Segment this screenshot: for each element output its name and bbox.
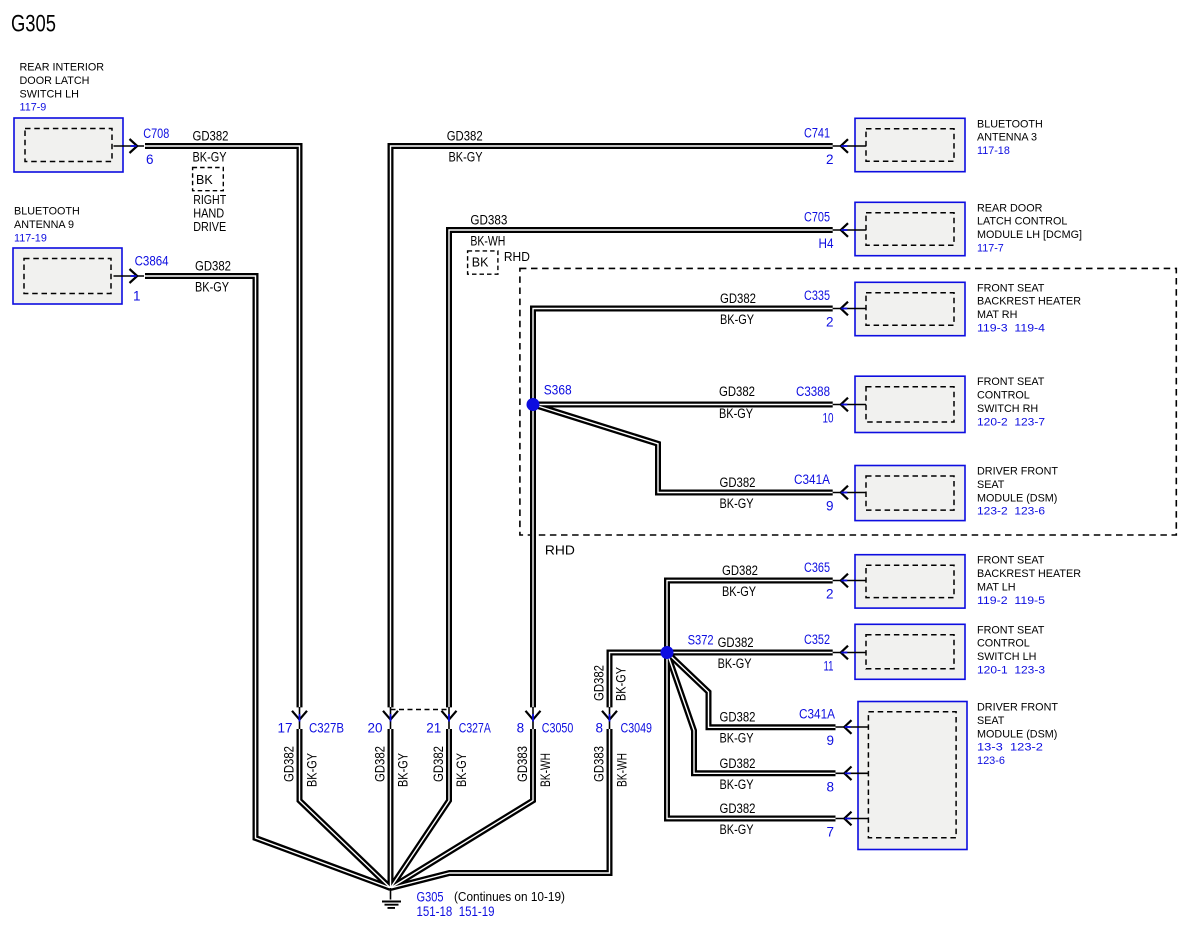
svg-text:6: 6 [146, 152, 154, 167]
svg-text:11: 11 [824, 659, 834, 674]
svg-text:BLUETOOTH: BLUETOOTH [14, 206, 80, 218]
svg-text:C327B: C327B [309, 721, 344, 736]
svg-text:SWITCH LH: SWITCH LH [977, 651, 1036, 663]
svg-text:REAR INTERIOR: REAR INTERIOR [20, 62, 105, 74]
svg-text:117-19: 117-19 [14, 232, 47, 244]
svg-text:GD382: GD382 [282, 746, 297, 782]
svg-text:DRIVE: DRIVE [193, 220, 226, 234]
svg-text:117-9: 117-9 [20, 102, 47, 114]
svg-text:9: 9 [826, 499, 834, 514]
svg-text:GD382: GD382 [592, 665, 607, 701]
svg-text:8: 8 [517, 721, 525, 736]
svg-text:BACKREST HEATER: BACKREST HEATER [977, 568, 1081, 580]
svg-text:RIGHT: RIGHT [193, 193, 226, 207]
svg-text:123-2 123-6: 123-2 123-6 [977, 506, 1045, 518]
svg-text:CONTROL: CONTROL [977, 390, 1030, 402]
svg-text:120-1 123-3: 120-1 123-3 [977, 665, 1045, 677]
svg-text:BK-GY: BK-GY [454, 753, 469, 787]
svg-text:8: 8 [826, 779, 834, 794]
svg-text:C705: C705 [804, 210, 830, 225]
svg-text:C341A: C341A [799, 707, 835, 722]
svg-text:G305: G305 [11, 11, 56, 38]
svg-text:GD382: GD382 [722, 563, 758, 578]
svg-text:BK-GY: BK-GY [720, 731, 754, 746]
svg-text:MAT LH: MAT LH [977, 582, 1016, 594]
svg-text:13-3 123-2: 13-3 123-2 [977, 742, 1043, 754]
svg-text:21: 21 [426, 721, 441, 736]
svg-text:RHD: RHD [545, 543, 575, 558]
svg-text:BK-WH: BK-WH [470, 234, 505, 249]
svg-text:S368: S368 [544, 383, 572, 398]
svg-text:C365: C365 [804, 560, 830, 575]
svg-text:120-2 123-7: 120-2 123-7 [977, 416, 1045, 428]
svg-text:FRONT SEAT: FRONT SEAT [977, 624, 1045, 636]
svg-text:HAND: HAND [193, 206, 224, 220]
svg-text:GD382: GD382 [719, 384, 755, 399]
svg-text:H4: H4 [819, 236, 834, 251]
svg-text:FRONT SEAT: FRONT SEAT [977, 282, 1045, 294]
svg-text:DRIVER FRONT: DRIVER FRONT [977, 702, 1058, 714]
svg-text:BK-WH: BK-WH [615, 753, 630, 787]
svg-text:C327A: C327A [459, 721, 491, 736]
svg-text:GD383: GD383 [470, 213, 507, 228]
svg-text:BK-GY: BK-GY [396, 753, 411, 787]
svg-text:SWITCH LH: SWITCH LH [20, 88, 79, 100]
svg-text:RHD: RHD [504, 250, 530, 264]
svg-text:17: 17 [278, 721, 293, 736]
svg-text:9: 9 [826, 733, 834, 748]
svg-text:MODULE (DSM): MODULE (DSM) [977, 492, 1057, 504]
svg-text:BK-GY: BK-GY [193, 150, 227, 165]
svg-text:G305: G305 [417, 890, 444, 905]
svg-text:7: 7 [826, 825, 834, 840]
svg-text:S372: S372 [688, 633, 714, 648]
svg-text:BK-GY: BK-GY [449, 150, 483, 165]
svg-text:GD382: GD382 [720, 801, 756, 816]
svg-text:GD382: GD382 [431, 746, 446, 782]
svg-text:REAR DOOR: REAR DOOR [977, 202, 1043, 214]
svg-text:C741: C741 [804, 126, 830, 141]
svg-text:119-3 119-4: 119-3 119-4 [977, 323, 1045, 335]
svg-text:GD382: GD382 [193, 129, 229, 144]
svg-text:GD382: GD382 [720, 291, 756, 306]
svg-text:2: 2 [826, 587, 834, 602]
svg-text:BK-GY: BK-GY [614, 667, 629, 701]
svg-text:SEAT: SEAT [977, 715, 1005, 727]
svg-text:GD382: GD382 [720, 475, 756, 490]
svg-text:(Continues on 10-19): (Continues on 10-19) [454, 889, 565, 904]
svg-text:1: 1 [133, 289, 141, 304]
svg-text:C3049: C3049 [621, 721, 653, 736]
svg-text:119-2 119-5: 119-2 119-5 [977, 595, 1045, 607]
svg-text:151-18 151-19: 151-18 151-19 [417, 904, 495, 919]
svg-text:C3050: C3050 [542, 721, 574, 736]
svg-text:C708: C708 [143, 126, 169, 141]
svg-text:MAT RH: MAT RH [977, 309, 1017, 321]
svg-text:GD382: GD382 [373, 746, 388, 782]
svg-text:LATCH CONTROL: LATCH CONTROL [977, 216, 1067, 228]
svg-text:BK-WH: BK-WH [538, 753, 553, 787]
svg-text:BACKREST HEATER: BACKREST HEATER [977, 296, 1081, 308]
svg-text:GD382: GD382 [720, 710, 756, 725]
svg-text:CONTROL: CONTROL [977, 638, 1030, 650]
svg-text:BK-GY: BK-GY [720, 822, 754, 837]
svg-text:BLUETOOTH: BLUETOOTH [977, 118, 1043, 130]
svg-text:117-7: 117-7 [977, 243, 1004, 255]
svg-text:GD382: GD382 [720, 756, 756, 771]
svg-text:GD382: GD382 [718, 635, 754, 650]
svg-text:BK-GY: BK-GY [718, 656, 752, 671]
svg-text:123-6: 123-6 [977, 755, 1005, 767]
svg-text:FRONT SEAT: FRONT SEAT [977, 376, 1045, 388]
svg-text:BK-GY: BK-GY [305, 753, 320, 787]
svg-text:GD383: GD383 [592, 746, 607, 782]
svg-text:2: 2 [826, 152, 834, 167]
svg-text:BK: BK [472, 256, 489, 270]
svg-text:BK-GY: BK-GY [720, 312, 754, 327]
svg-text:20: 20 [368, 721, 383, 736]
svg-text:GD383: GD383 [515, 746, 530, 782]
svg-text:GD382: GD382 [447, 129, 483, 144]
svg-text:8: 8 [595, 721, 603, 736]
svg-text:C3388: C3388 [796, 384, 830, 399]
svg-text:BK-GY: BK-GY [720, 777, 754, 792]
svg-text:SEAT: SEAT [977, 479, 1005, 491]
svg-text:MODULE (DSM): MODULE (DSM) [977, 728, 1057, 740]
svg-text:BK-GY: BK-GY [720, 496, 754, 511]
svg-text:2: 2 [826, 315, 834, 330]
svg-text:FRONT SEAT: FRONT SEAT [977, 555, 1045, 567]
svg-text:BK: BK [196, 173, 213, 187]
svg-text:117-18: 117-18 [977, 145, 1010, 157]
svg-text:SWITCH RH: SWITCH RH [977, 403, 1038, 415]
svg-text:BK-GY: BK-GY [722, 584, 756, 599]
svg-text:DOOR LATCH: DOOR LATCH [20, 75, 90, 87]
svg-text:MODULE LH [DCMG]: MODULE LH [DCMG] [977, 229, 1082, 241]
svg-text:GD382: GD382 [195, 259, 231, 274]
svg-text:C335: C335 [804, 288, 830, 303]
svg-text:10: 10 [823, 411, 834, 426]
svg-text:BK-GY: BK-GY [195, 280, 229, 295]
svg-text:ANTENNA 9: ANTENNA 9 [14, 219, 74, 231]
svg-text:ANTENNA 3: ANTENNA 3 [977, 132, 1037, 144]
svg-text:DRIVER FRONT: DRIVER FRONT [977, 466, 1058, 478]
svg-text:BK-GY: BK-GY [719, 406, 753, 421]
svg-text:C352: C352 [804, 632, 830, 647]
svg-text:C3864: C3864 [135, 254, 169, 269]
svg-text:C341A: C341A [794, 472, 830, 487]
